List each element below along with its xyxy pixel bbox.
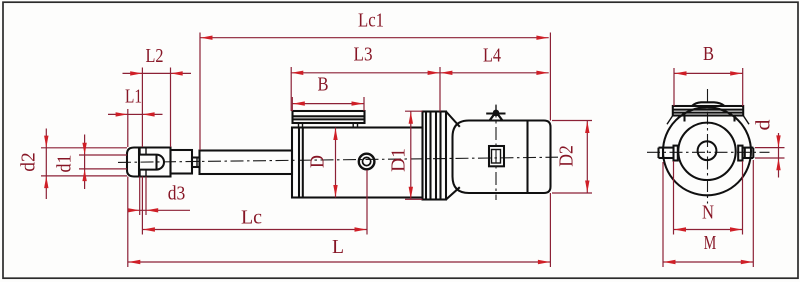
left trunnion washer xyxy=(674,146,678,161)
inner circle xyxy=(678,123,735,180)
motor vertical centerline xyxy=(495,105,497,201)
rear flange plate stack xyxy=(423,112,447,200)
clevis slot lines xyxy=(139,154,157,156)
svg-text:D: D xyxy=(307,155,329,168)
svg-text:Lc1: Lc1 xyxy=(358,10,384,32)
dim d1 xyxy=(79,154,127,156)
dim N end view xyxy=(673,161,675,235)
svg-text:D1: D1 xyxy=(388,148,410,172)
clevis prong divider xyxy=(138,148,140,177)
svg-text:d: d xyxy=(753,120,775,131)
svg-text:B: B xyxy=(318,74,329,96)
svg-text:B: B xyxy=(703,43,714,65)
clevis pin hole square top prong xyxy=(140,148,146,155)
end view vertical centerline xyxy=(707,89,709,204)
wire main horizontal centerline side view xyxy=(118,157,558,162)
cylinder body xyxy=(292,128,423,198)
dim Lc xyxy=(141,177,143,235)
left trunnion pin xyxy=(659,147,674,149)
dim B side xyxy=(291,97,293,111)
cap side legs xyxy=(683,116,685,122)
trunnion pin circle side view xyxy=(359,154,375,170)
rod circle xyxy=(698,141,717,160)
piston rod xyxy=(200,151,293,175)
dim L1 xyxy=(127,109,129,147)
top flange plate B xyxy=(293,111,365,123)
dim d2 xyxy=(41,147,127,149)
dim d3 xyxy=(139,177,141,216)
dim L xyxy=(127,177,129,268)
flange legs xyxy=(299,123,303,128)
dim D2 xyxy=(552,120,592,122)
right trunnion washer xyxy=(738,146,742,161)
svg-text:d3: d3 xyxy=(168,183,186,205)
svg-text:L1: L1 xyxy=(125,86,142,108)
dim L2 xyxy=(141,68,143,148)
svg-text:L2: L2 xyxy=(146,45,164,67)
cap corner braces xyxy=(667,116,673,125)
end view horizontal centerline xyxy=(647,151,770,153)
motor housing outer circle xyxy=(663,107,751,195)
svg-text:d2: d2 xyxy=(18,152,40,172)
svg-text:M: M xyxy=(704,232,717,254)
svg-text:N: N xyxy=(702,202,714,224)
dim L3 xyxy=(290,67,292,111)
cylinder front head lines xyxy=(298,128,300,198)
clevis rod-end fork xyxy=(127,148,171,177)
motor body xyxy=(453,121,551,194)
svg-text:D2: D2 xyxy=(556,145,578,167)
svg-text:L4: L4 xyxy=(483,45,501,67)
dim d end view xyxy=(755,147,785,149)
top cap plate xyxy=(673,106,743,116)
motor top vent symbol xyxy=(486,113,505,115)
neck groove piece xyxy=(192,158,200,168)
dim B end view xyxy=(673,68,675,106)
motor end cap seam xyxy=(526,121,528,194)
dim L4 xyxy=(440,71,452,75)
dim M end view xyxy=(662,162,664,267)
svg-text:Lc: Lc xyxy=(241,207,262,229)
motor terminal box xyxy=(489,146,504,166)
dim Lc1 xyxy=(199,33,201,151)
coupler block xyxy=(171,150,193,174)
clevis pin hole lines bottom prong xyxy=(139,170,141,177)
svg-text:L3: L3 xyxy=(354,44,373,66)
clevis slot rounded end xyxy=(157,155,165,170)
svg-text:L: L xyxy=(332,236,344,258)
dim D xyxy=(335,128,337,198)
motor bell cone slants xyxy=(446,112,460,127)
dim D1 xyxy=(405,110,423,112)
right trunnion pin xyxy=(743,147,754,149)
svg-text:d1: d1 xyxy=(54,155,76,173)
cap dome xyxy=(692,102,725,106)
